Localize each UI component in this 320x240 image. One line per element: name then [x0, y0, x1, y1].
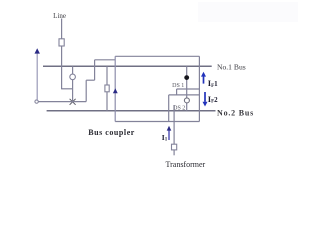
arrow: left fault current (blue, up) — [35, 48, 40, 101]
wire: line feeder vertical lower — [61, 46, 63, 89]
wire: step horizontal — [86, 79, 94, 81]
svg-text:Bus coupler: Bus coupler — [88, 128, 135, 137]
wire: step vertical mid — [94, 60, 96, 80]
svg-text:No.1 Bus: No.1 Bus — [217, 62, 246, 71]
svg-text:DS 1: DS 1 — [172, 83, 184, 89]
wire: step vertical left — [85, 80, 87, 101]
node terminal small circle — [35, 100, 38, 103]
arrow: transformer current It (blue, up) — [167, 126, 172, 140]
wire: coupler path vertical — [114, 56, 116, 121]
fault X mark — [70, 99, 76, 105]
wire: transformer vertical upper — [173, 105, 175, 144]
circuit breaker circle (line bay) — [70, 74, 76, 80]
wire: H1 link — [177, 88, 200, 90]
DS1 disconnector closed dot — [184, 75, 189, 80]
DS2 disconnector open circle — [184, 98, 189, 103]
wire: breaker bay vertical upper — [72, 66, 74, 74]
svg-text:I1: I1 — [162, 133, 168, 143]
wire: bottom rail — [115, 121, 199, 123]
wire: transformer bay vertical (DS line) — [186, 66, 188, 111]
wire: transformer vertical lower — [173, 150, 175, 155]
svg-text:IF1: IF1 — [208, 78, 218, 89]
svg-text:Line: Line — [53, 12, 66, 20]
arrow: IF1 (blue, up) — [201, 72, 206, 84]
bus coupler breaker box — [105, 85, 109, 92]
wire: left transformer branch vertical — [168, 95, 170, 122]
arrow: bus coupler current head (blue, up) — [113, 88, 118, 93]
wire: X horizontal — [38, 101, 86, 103]
wire: right drop vertical — [198, 56, 200, 121]
faint scan artifact top right — [198, 2, 298, 22]
No.2 bus line — [47, 110, 216, 112]
wire: H1-H2 jog vertical — [176, 89, 178, 95]
wire: link B horizontal — [95, 59, 116, 61]
svg-text:Transformer: Transformer — [166, 160, 206, 169]
No.1 bus line — [43, 65, 212, 67]
wire: feeder jog horizontal — [62, 88, 73, 90]
wire: bus coupler vertical lower — [106, 92, 108, 111]
isolator box on line feeder — [59, 39, 64, 46]
wire: bus coupler vertical upper — [106, 66, 108, 85]
svg-text:DS 2: DS 2 — [173, 105, 185, 111]
wire: breaker bay vertical lower — [72, 80, 74, 102]
svg-text:IF2: IF2 — [208, 94, 218, 105]
arrow: IF2 (blue, down) — [203, 92, 208, 107]
wire: H2 link — [169, 94, 199, 96]
transformer box — [172, 144, 177, 150]
wire: link A horizontal — [115, 55, 199, 57]
svg-text:No.2 Bus: No.2 Bus — [217, 108, 254, 117]
wire: line feeder vertical upper — [61, 19, 63, 39]
